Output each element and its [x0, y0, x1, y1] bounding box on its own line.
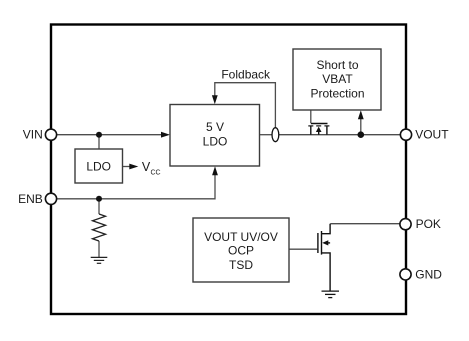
svg-text:LDO: LDO — [86, 159, 111, 173]
svg-text:Protection: Protection — [310, 86, 364, 100]
svg-text:POK: POK — [416, 217, 441, 231]
svg-text:Foldback: Foldback — [221, 68, 271, 82]
svg-text:VOUT: VOUT — [415, 128, 449, 142]
svg-text:ENB: ENB — [18, 192, 43, 206]
svg-text:Short to: Short to — [316, 58, 358, 72]
svg-text:5 V: 5 V — [206, 120, 224, 134]
svg-text:LDO: LDO — [203, 134, 228, 148]
svg-text:VOUT UV/OV: VOUT UV/OV — [204, 230, 278, 244]
svg-text:TSD: TSD — [229, 258, 253, 272]
svg-text:VBAT: VBAT — [322, 72, 353, 86]
svg-text:OCP: OCP — [228, 244, 254, 258]
svg-text:VIN: VIN — [23, 128, 43, 142]
svg-text:CC: CC — [151, 169, 161, 176]
svg-text:GND: GND — [415, 268, 442, 282]
